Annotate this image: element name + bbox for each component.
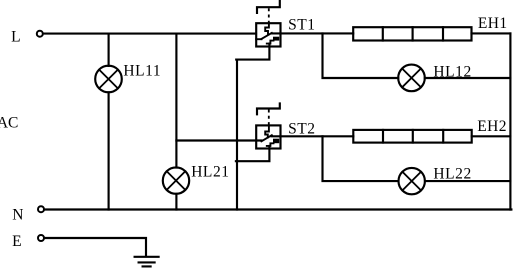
svg-text:HL21: HL21 (191, 164, 229, 181)
svg-text:E: E (12, 233, 21, 250)
svg-text:EH2: EH2 (477, 118, 507, 135)
svg-text:HL12: HL12 (433, 63, 471, 80)
svg-text:L: L (11, 29, 20, 46)
svg-text:HL22: HL22 (433, 165, 471, 182)
svg-text:AC: AC (0, 115, 18, 132)
svg-text:EH1: EH1 (478, 15, 508, 32)
svg-text:ST1: ST1 (288, 17, 316, 34)
svg-text:ST2: ST2 (288, 120, 316, 137)
svg-text:HL11: HL11 (123, 63, 161, 80)
svg-text:N: N (12, 206, 23, 223)
